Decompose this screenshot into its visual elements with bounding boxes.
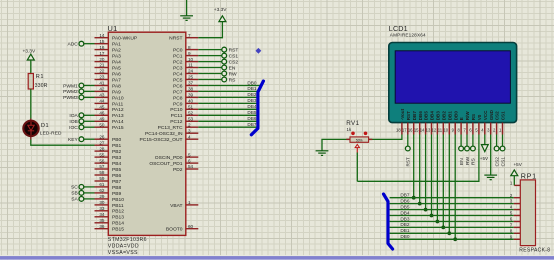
wire -Vout to RV1 bbox=[369, 135, 402, 140]
svg-text:PB8: PB8 bbox=[112, 185, 122, 191]
svg-text:PB10: PB10 bbox=[112, 197, 124, 203]
svg-text:V0: V0 bbox=[477, 114, 482, 120]
wire PC9 to bus (DB3) bbox=[198, 98, 258, 103]
svg-text:CS2: CS2 bbox=[494, 157, 500, 167]
potentiometer RV1 bbox=[346, 120, 372, 153]
svg-text:PC4: PC4 bbox=[173, 71, 183, 77]
svg-text:PC15-OSC32_OUT: PC15-OSC32_OUT bbox=[140, 137, 183, 143]
svg-text:17: 17 bbox=[99, 51, 105, 56]
svg-text:1: 1 bbox=[188, 200, 191, 205]
svg-text:13: 13 bbox=[426, 127, 431, 132]
LCD LCD1 AMPIRE128X64 bbox=[389, 24, 517, 134]
svg-text:14: 14 bbox=[99, 33, 105, 38]
svg-text:RST: RST bbox=[406, 157, 411, 166]
svg-text:RW: RW bbox=[229, 71, 237, 77]
svg-text:PA3: PA3 bbox=[112, 54, 121, 60]
svg-text:16: 16 bbox=[408, 127, 413, 132]
LED D1 bbox=[23, 119, 62, 140]
svg-text:DB7: DB7 bbox=[247, 122, 257, 127]
svg-text:PB12: PB12 bbox=[112, 209, 124, 215]
svg-text:PB9: PB9 bbox=[112, 191, 122, 197]
resistor R1 bbox=[28, 74, 48, 90]
svg-text:57: 57 bbox=[99, 164, 105, 169]
svg-text:16: 16 bbox=[99, 45, 105, 50]
svg-text:PA6: PA6 bbox=[112, 71, 121, 77]
svg-text:4: 4 bbox=[188, 134, 191, 139]
svg-text:GND: GND bbox=[489, 109, 494, 120]
svg-text:DB1: DB1 bbox=[400, 228, 410, 233]
svg-text:3: 3 bbox=[188, 128, 191, 133]
svg-text:CS2: CS2 bbox=[229, 59, 239, 65]
svg-text:PWM1: PWM1 bbox=[63, 83, 78, 89]
svg-text:PC7: PC7 bbox=[173, 89, 183, 95]
svg-text:44: 44 bbox=[99, 99, 105, 104]
svg-text:DB6: DB6 bbox=[418, 111, 423, 121]
svg-text:6: 6 bbox=[188, 158, 191, 163]
svg-text:11: 11 bbox=[188, 63, 193, 68]
svg-text:DB7: DB7 bbox=[412, 111, 417, 121]
svg-text:DB0: DB0 bbox=[400, 234, 410, 239]
terminal SA bbox=[71, 197, 94, 203]
power +5V (RP1) bbox=[511, 162, 523, 176]
svg-text:9: 9 bbox=[188, 51, 191, 56]
svg-text:VDDA=VDD: VDDA=VDD bbox=[108, 244, 139, 250]
svg-text:18: 18 bbox=[396, 127, 401, 132]
svg-text:ADC: ADC bbox=[67, 42, 78, 48]
svg-text:56: 56 bbox=[99, 158, 105, 163]
svg-text:PB15: PB15 bbox=[112, 227, 124, 233]
svg-text:DB2: DB2 bbox=[247, 92, 257, 97]
svg-text:PA13: PA13 bbox=[112, 113, 124, 119]
svg-text:PC8: PC8 bbox=[173, 95, 183, 101]
svg-text:CS2: CS2 bbox=[495, 111, 500, 120]
terminal SC bbox=[71, 185, 94, 191]
svg-text:E: E bbox=[459, 117, 464, 120]
svg-text:39: 39 bbox=[188, 93, 194, 98]
microcontroller U1 bbox=[95, 24, 199, 256]
svg-text:330R: 330R bbox=[35, 83, 48, 89]
svg-text:PC0: PC0 bbox=[173, 48, 183, 54]
svg-text:37: 37 bbox=[188, 81, 194, 86]
svg-text:41: 41 bbox=[99, 81, 105, 86]
svg-text:DB4: DB4 bbox=[430, 111, 435, 121]
wire net DB3 to RP1 pin 6 bbox=[390, 216, 514, 221]
svg-text:7: 7 bbox=[188, 33, 191, 38]
junction DB2 bbox=[441, 226, 445, 230]
svg-text:DB3: DB3 bbox=[247, 98, 257, 103]
svg-text:34: 34 bbox=[99, 212, 105, 217]
svg-text:51: 51 bbox=[188, 105, 194, 110]
svg-text:OSCIN_PD0: OSCIN_PD0 bbox=[155, 155, 183, 161]
wire +3.3V to R1 bbox=[30, 60, 32, 74]
svg-text:49: 49 bbox=[99, 117, 105, 122]
svg-text:RS: RS bbox=[471, 157, 477, 165]
svg-text:PA2: PA2 bbox=[112, 48, 121, 54]
svg-text:DB7: DB7 bbox=[400, 193, 410, 198]
junction DB1 bbox=[447, 231, 451, 235]
svg-text:AMPIRE128X64: AMPIRE128X64 bbox=[390, 33, 426, 38]
svg-text:PC3: PC3 bbox=[173, 65, 183, 71]
svg-text:PA4: PA4 bbox=[112, 60, 121, 66]
svg-text:60: 60 bbox=[188, 224, 194, 229]
svg-text:10: 10 bbox=[188, 57, 194, 62]
svg-text:VCC: VCC bbox=[483, 110, 488, 120]
svg-text:RP1: RP1 bbox=[521, 172, 537, 181]
svg-text:23: 23 bbox=[99, 75, 105, 80]
terminal EN bbox=[198, 65, 236, 71]
svg-text:IOB: IOB bbox=[69, 119, 77, 125]
svg-text:PC12: PC12 bbox=[170, 119, 183, 125]
svg-text:CS1: CS1 bbox=[500, 157, 506, 167]
svg-text:38: 38 bbox=[188, 87, 194, 92]
ground (top, above U1) bbox=[180, 0, 193, 20]
ground (LCD GND) bbox=[484, 135, 497, 180]
svg-text:PB14: PB14 bbox=[112, 221, 124, 227]
svg-text:+3.3V: +3.3V bbox=[23, 49, 36, 55]
svg-text:50: 50 bbox=[99, 122, 105, 127]
svg-text:PA15: PA15 bbox=[112, 125, 124, 131]
svg-text:PC13_RTC: PC13_RTC bbox=[158, 125, 183, 131]
junction DB3 bbox=[436, 220, 440, 224]
svg-text:42: 42 bbox=[99, 87, 105, 92]
svg-text:R1: R1 bbox=[36, 74, 44, 80]
svg-text:PC14-OSC32_IN: PC14-OSC32_IN bbox=[145, 131, 183, 137]
wire RV1 wiper down bbox=[356, 153, 358, 182]
power +5V (LCD VCC, arrow down) bbox=[480, 135, 489, 162]
wire LCD DB3 down to net DB3 bbox=[436, 135, 438, 222]
svg-text:PB1: PB1 bbox=[112, 143, 122, 149]
svg-text:DB2: DB2 bbox=[400, 222, 410, 227]
svg-text:+5V: +5V bbox=[514, 162, 523, 167]
wire LCD DB7 down to net DB7 bbox=[413, 135, 415, 198]
terminal KEY bbox=[68, 137, 94, 143]
svg-text:45: 45 bbox=[99, 105, 105, 110]
wire NRST to +3.3V bbox=[198, 22, 222, 38]
svg-text:IOA: IOA bbox=[69, 113, 78, 119]
svg-text:59: 59 bbox=[99, 176, 105, 181]
svg-text:PC1: PC1 bbox=[173, 54, 183, 60]
svg-text:PB11: PB11 bbox=[112, 203, 124, 209]
svg-text:RST: RST bbox=[406, 111, 411, 120]
svg-text:DB0: DB0 bbox=[247, 80, 257, 85]
wire net DB0 to RP1 pin 9 bbox=[390, 234, 514, 239]
svg-text:PWM2: PWM2 bbox=[63, 89, 78, 95]
junction DB4 bbox=[430, 214, 434, 218]
svg-text:DB5: DB5 bbox=[247, 110, 257, 115]
junction DB7 bbox=[412, 196, 416, 200]
svg-text:PA12: PA12 bbox=[112, 107, 124, 113]
svg-text:21: 21 bbox=[99, 63, 105, 68]
svg-text:29: 29 bbox=[99, 194, 105, 199]
svg-text:DB6: DB6 bbox=[400, 198, 410, 203]
svg-text:DB0: DB0 bbox=[453, 111, 458, 121]
svg-text:SB: SB bbox=[71, 191, 78, 197]
wire ground to RV1 left bbox=[322, 139, 350, 150]
svg-text:43: 43 bbox=[99, 93, 105, 98]
wire PC10 to bus (DB4) bbox=[198, 104, 258, 109]
svg-text:RV1: RV1 bbox=[346, 120, 359, 127]
svg-text:15: 15 bbox=[414, 127, 419, 132]
junction DB6 bbox=[418, 202, 422, 206]
svg-text:PA0-WKUP: PA0-WKUP bbox=[112, 36, 137, 42]
svg-text:PC6: PC6 bbox=[173, 83, 183, 89]
svg-text:26: 26 bbox=[99, 134, 105, 139]
bus (lower, LCD data) bbox=[384, 194, 393, 249]
svg-text:PB2: PB2 bbox=[112, 149, 122, 155]
svg-text:+5V: +5V bbox=[480, 156, 489, 161]
wire PC11 to bus (DB5) bbox=[198, 110, 258, 115]
wire net DB2 to RP1 pin 7 bbox=[390, 222, 514, 227]
svg-text:58: 58 bbox=[99, 170, 105, 175]
svg-text:PC11: PC11 bbox=[171, 113, 183, 119]
svg-text:RESPACK-8: RESPACK-8 bbox=[519, 248, 550, 254]
svg-text:52: 52 bbox=[188, 111, 194, 116]
terminal ADC bbox=[67, 41, 94, 47]
svg-text:35: 35 bbox=[99, 218, 105, 223]
wire LCD DB2 down to net DB2 bbox=[442, 135, 444, 228]
terminal PWM1 bbox=[63, 83, 94, 89]
terminal RST bbox=[198, 47, 238, 53]
svg-text:28: 28 bbox=[99, 146, 105, 151]
svg-text:EN: EN bbox=[229, 65, 236, 71]
wire net DB4 to RP1 pin 5 bbox=[390, 210, 514, 215]
svg-text:27: 27 bbox=[99, 140, 105, 145]
wire PC13 to bus (DB7) bbox=[198, 122, 258, 127]
bus (upper, MCU data) bbox=[251, 81, 263, 135]
svg-text:RST: RST bbox=[229, 47, 239, 53]
wire PC12 to bus (DB6) bbox=[198, 116, 258, 121]
svg-text:PD2: PD2 bbox=[173, 167, 183, 173]
terminal RW (LCD) bbox=[465, 135, 471, 166]
svg-text:24: 24 bbox=[188, 69, 194, 74]
wire V0 to RV1 wiper bbox=[357, 135, 479, 182]
wire net DB7 to RP1 pin 2 bbox=[390, 193, 514, 198]
svg-text:PA11: PA11 bbox=[112, 101, 124, 107]
svg-text:SA: SA bbox=[71, 197, 78, 203]
terminal IOA bbox=[69, 113, 94, 119]
svg-text:DB4: DB4 bbox=[400, 210, 410, 215]
svg-text:D1: D1 bbox=[41, 123, 49, 129]
svg-text:53: 53 bbox=[188, 117, 194, 122]
svg-text:RW: RW bbox=[465, 157, 471, 165]
resistor pack RP1 RESPACK-8 bbox=[510, 172, 551, 254]
svg-text:15: 15 bbox=[99, 39, 105, 44]
svg-text:BOOT0: BOOT0 bbox=[166, 227, 183, 233]
svg-text:VBAT: VBAT bbox=[170, 203, 182, 209]
svg-text:PA5: PA5 bbox=[112, 65, 121, 71]
terminal CS2 (LCD) bbox=[494, 135, 500, 167]
junction DB5 bbox=[424, 208, 428, 212]
svg-text:PB0: PB0 bbox=[112, 137, 122, 143]
svg-text:22: 22 bbox=[99, 69, 105, 74]
junction DB0 bbox=[453, 237, 457, 241]
terminal SB bbox=[71, 191, 94, 197]
terminal RS (LCD) bbox=[471, 135, 477, 166]
svg-text:50%: 50% bbox=[356, 138, 363, 142]
svg-text:PB5: PB5 bbox=[112, 167, 122, 173]
terminal IOB bbox=[69, 119, 94, 125]
svg-text:DB2: DB2 bbox=[441, 111, 446, 121]
wire LCD DB1 down to net DB1 bbox=[448, 135, 450, 234]
wire net DB1 to RP1 pin 8 bbox=[390, 228, 514, 233]
svg-text:RS: RS bbox=[229, 77, 237, 83]
svg-text:17: 17 bbox=[402, 127, 407, 132]
svg-text:PC2: PC2 bbox=[173, 60, 183, 66]
svg-text:20: 20 bbox=[99, 57, 105, 62]
terminal PWM2 bbox=[63, 89, 94, 95]
svg-text:55: 55 bbox=[99, 152, 105, 157]
svg-text:33: 33 bbox=[99, 206, 105, 211]
svg-text:IOC: IOC bbox=[69, 125, 78, 131]
svg-text:EN: EN bbox=[459, 158, 465, 165]
svg-text:PC10: PC10 bbox=[170, 107, 183, 113]
svg-text:2: 2 bbox=[188, 122, 191, 127]
svg-text:KEY: KEY bbox=[68, 137, 79, 143]
svg-text:PB6: PB6 bbox=[112, 173, 122, 179]
svg-text:PA14: PA14 bbox=[112, 119, 124, 125]
terminal CS1 (LCD) bbox=[500, 135, 506, 167]
svg-text:46: 46 bbox=[99, 111, 105, 116]
terminal RS bbox=[198, 77, 236, 83]
svg-text:SC: SC bbox=[71, 185, 78, 191]
svg-text:12: 12 bbox=[432, 127, 437, 132]
svg-text:PC5: PC5 bbox=[173, 77, 183, 83]
svg-text:PC9: PC9 bbox=[173, 101, 183, 107]
terminal EN (LCD) bbox=[459, 135, 465, 166]
svg-text:25: 25 bbox=[188, 75, 194, 80]
svg-text:STM32F103R6: STM32F103R6 bbox=[108, 237, 147, 243]
svg-text:PA10: PA10 bbox=[112, 95, 124, 101]
svg-text:DB6: DB6 bbox=[247, 116, 257, 121]
svg-text:14: 14 bbox=[420, 127, 425, 132]
wire PC6 to bus (DB0) bbox=[198, 80, 261, 85]
svg-text:PWM3: PWM3 bbox=[63, 95, 78, 101]
svg-text:PA9: PA9 bbox=[112, 89, 121, 95]
wire LCD DB5 down to net DB5 bbox=[425, 135, 427, 210]
wire D1 to PB1 bbox=[31, 140, 95, 146]
power +3.3V (left) bbox=[23, 49, 36, 61]
wire net DB6 to RP1 pin 3 bbox=[390, 198, 514, 203]
svg-text:DB3: DB3 bbox=[400, 216, 410, 221]
terminal CS1 bbox=[198, 53, 238, 59]
svg-text:PB7: PB7 bbox=[112, 179, 122, 185]
svg-text:NRST: NRST bbox=[169, 36, 182, 42]
svg-text:10: 10 bbox=[443, 127, 448, 132]
wire R1 to D1 bbox=[30, 89, 32, 119]
svg-text:40: 40 bbox=[188, 99, 194, 104]
svg-text:PB13: PB13 bbox=[112, 215, 124, 221]
wire +5V to RP1 pin 1 bbox=[513, 176, 515, 186]
svg-text:5: 5 bbox=[188, 152, 191, 157]
terminal RST (LCD) bbox=[405, 135, 410, 167]
svg-text:+3.3V: +3.3V bbox=[214, 7, 227, 13]
svg-text:62: 62 bbox=[99, 188, 105, 193]
svg-text:30: 30 bbox=[99, 200, 105, 205]
svg-text:RS: RS bbox=[471, 114, 476, 120]
svg-text:36: 36 bbox=[99, 224, 105, 229]
svg-text:54: 54 bbox=[188, 164, 194, 169]
svg-text:OSCOUT_PD1: OSCOUT_PD1 bbox=[149, 161, 182, 167]
svg-text:CS1: CS1 bbox=[229, 53, 239, 59]
wire PC7 to bus (DB1) bbox=[198, 86, 258, 91]
svg-text:-Vout: -Vout bbox=[400, 108, 405, 120]
terminal IOC bbox=[69, 125, 94, 131]
svg-text:DB5: DB5 bbox=[424, 111, 429, 121]
svg-text:PA1: PA1 bbox=[112, 42, 121, 48]
svg-text:PA7: PA7 bbox=[112, 77, 121, 83]
svg-text:DB4: DB4 bbox=[247, 104, 257, 109]
wire PC8 to bus (DB2) bbox=[198, 92, 258, 97]
svg-text:DB1: DB1 bbox=[447, 111, 452, 121]
svg-text:DB5: DB5 bbox=[400, 204, 410, 209]
wire LCD DB6 down to net DB6 bbox=[419, 135, 421, 204]
node marker (blue diamond) bbox=[256, 48, 262, 54]
svg-text:DB3: DB3 bbox=[436, 111, 441, 121]
terminal CS2 bbox=[198, 59, 238, 65]
svg-text:8: 8 bbox=[188, 45, 191, 50]
wire net DB5 to RP1 pin 4 bbox=[390, 204, 514, 209]
wire LCD DB4 down to net DB4 bbox=[431, 135, 433, 216]
ground (RV1) bbox=[316, 151, 329, 156]
terminal PWM3 bbox=[63, 95, 94, 101]
svg-text:PB3: PB3 bbox=[112, 155, 122, 161]
svg-text:61: 61 bbox=[99, 182, 105, 187]
svg-text:1k: 1k bbox=[347, 127, 352, 132]
terminal RW bbox=[198, 71, 237, 77]
svg-text:PA8: PA8 bbox=[112, 83, 121, 89]
svg-text:R/W: R/W bbox=[465, 111, 470, 121]
svg-text:CS1: CS1 bbox=[501, 111, 506, 120]
power +3.3V (NRST) bbox=[214, 7, 227, 22]
svg-text:11: 11 bbox=[438, 127, 443, 132]
svg-text:LED-RED: LED-RED bbox=[40, 131, 62, 137]
svg-text:U1: U1 bbox=[108, 24, 118, 33]
wire LCD DB0 down to net DB0 bbox=[454, 135, 456, 240]
svg-text:DB1: DB1 bbox=[247, 86, 257, 91]
svg-text:PB4: PB4 bbox=[112, 161, 122, 167]
